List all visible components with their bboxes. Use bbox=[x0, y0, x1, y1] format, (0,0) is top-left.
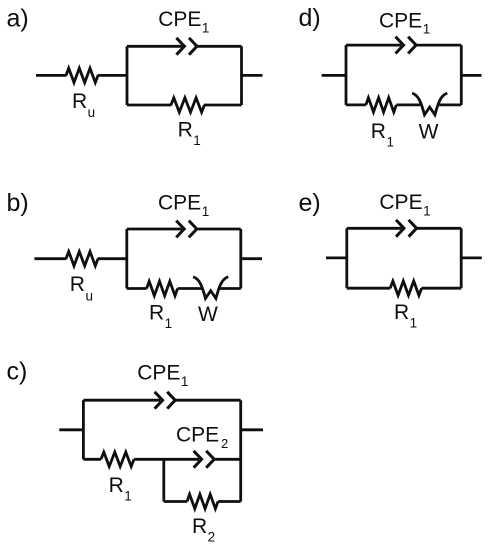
wire bottom branch right (c) bbox=[218, 500, 241, 503]
svg-text:b): b) bbox=[7, 189, 29, 217]
wire Ru to node (b) bbox=[98, 257, 127, 260]
wire bottom branch left (d) bbox=[346, 104, 366, 107]
wire left terminal (c) bbox=[59, 428, 83, 431]
wire left branch vertical (c) bbox=[82, 400, 85, 459]
svg-text:c): c) bbox=[7, 358, 28, 386]
svg-text:W: W bbox=[198, 303, 218, 326]
resistor Ru (b) bbox=[66, 252, 98, 266]
wire bottom branch right (e) bbox=[422, 287, 462, 290]
wire bottom branch right (d) bbox=[439, 104, 461, 107]
wire top branch left (b) bbox=[127, 228, 182, 231]
wire top branch right (d) bbox=[416, 44, 461, 47]
svg-text:e): e) bbox=[299, 189, 321, 217]
wire right terminal (b) bbox=[241, 257, 262, 260]
wire Ru to node (a) bbox=[98, 74, 128, 77]
wire left terminal (e) bbox=[326, 256, 347, 259]
wire right branch vertical (a) bbox=[240, 46, 243, 105]
wire bottom branch left (a) bbox=[127, 104, 172, 107]
wire bottom branch right (a) bbox=[204, 104, 242, 107]
wire R1 to node B (c) bbox=[134, 458, 199, 461]
wire top branch left (d) bbox=[346, 44, 401, 47]
wire top branch left (e) bbox=[347, 227, 402, 230]
wire bottom branch left (b) bbox=[127, 287, 147, 290]
wire left branch vertical (d) bbox=[345, 45, 348, 105]
wire right branch vertical (c) bbox=[239, 400, 242, 501]
CPE C2 symbol (c) bbox=[194, 451, 202, 468]
wire top branch right (a) bbox=[197, 45, 242, 48]
CPE C1 symbol (b) bbox=[176, 221, 184, 238]
wire left terminal (a) bbox=[36, 74, 67, 77]
Warburg element W (d) bbox=[412, 93, 447, 115]
wire top branch left (a) bbox=[127, 45, 182, 48]
resistor R1 (a) bbox=[171, 98, 204, 112]
wire right terminal (e) bbox=[461, 256, 482, 259]
svg-text:W: W bbox=[419, 120, 439, 143]
svg-text:a): a) bbox=[7, 5, 29, 33]
resistor R2 (c) bbox=[187, 494, 218, 508]
wire right terminal (a) bbox=[242, 74, 263, 77]
wire left terminal (d) bbox=[322, 74, 346, 77]
wire top branch right (e) bbox=[417, 227, 462, 230]
wire middle branch right (c) bbox=[214, 458, 241, 461]
CPE C1 symbol (c) bbox=[155, 392, 163, 409]
wire left branch vertical (e) bbox=[345, 228, 348, 288]
wire right branch vertical (b) bbox=[239, 229, 242, 289]
wire left branch vertical (a) bbox=[126, 46, 129, 105]
wire R1 to Warburg (b) bbox=[178, 287, 202, 290]
wire left branch vertical (b) bbox=[125, 229, 128, 289]
wire R1 to Warburg (d) bbox=[396, 104, 420, 107]
wire top branch left (c) bbox=[83, 399, 160, 402]
wire top branch right (b) bbox=[197, 228, 241, 231]
wire node B vertical (c) bbox=[162, 459, 165, 501]
wire right terminal (d) bbox=[461, 74, 481, 77]
wire right terminal (c) bbox=[241, 428, 263, 431]
wire middle branch left (c) bbox=[83, 458, 101, 461]
wire right branch vertical (e) bbox=[460, 228, 463, 288]
wire bottom branch left (e) bbox=[347, 287, 390, 290]
resistor Ru (a) bbox=[66, 68, 98, 82]
wire bottom branch left (c) bbox=[164, 500, 187, 503]
Warburg element W (b) bbox=[193, 277, 228, 299]
CPE C1 symbol (d) bbox=[396, 37, 404, 54]
resistor R1 (e) bbox=[390, 281, 421, 295]
resistor R1 (c) bbox=[101, 452, 134, 466]
wire left terminal (b) bbox=[34, 257, 66, 260]
wire top branch right (c) bbox=[175, 399, 241, 402]
resistor R1 (b) bbox=[147, 281, 178, 295]
CPE C1 symbol (a) bbox=[176, 38, 184, 55]
svg-text:d): d) bbox=[299, 4, 321, 32]
wire right branch vertical (d) bbox=[460, 45, 463, 105]
CPE C1 symbol (e) bbox=[396, 220, 404, 237]
resistor R1 (d) bbox=[366, 98, 396, 112]
wire bottom branch right (b) bbox=[220, 287, 241, 290]
